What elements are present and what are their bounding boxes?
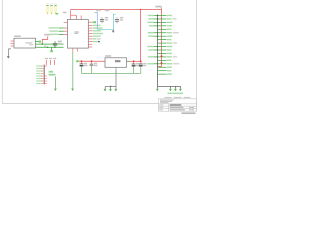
ground bus below regulator: [82, 72, 141, 74]
connector pin row 17: [158, 70, 172, 71]
ground symbol ISP: [54, 89, 57, 92]
IC1 name label: [63, 12, 67, 14]
ISP header body line: [43, 65, 45, 85]
ISP ground wire: [55, 77, 57, 89]
junction dots on serial wires: [54, 43, 56, 45]
connector pin row 6: [148, 32, 179, 33]
+5V drop to regulator output: [140, 10, 142, 62]
title block header text row: [165, 97, 172, 98]
X1 left pin 1: [11, 40, 14, 42]
IC1 bottom pin GND: [72, 48, 74, 52]
ground symbol conn4: [179, 89, 182, 92]
ground symbol crystal: [112, 29, 114, 30]
capacitor C5: [100, 17, 109, 24]
crystal net label 2: [105, 10, 110, 12]
title block row3 text: [159, 107, 163, 108]
VIN wire to regulator: [79, 60, 105, 62]
+5V drop to IC: [71, 10, 77, 20]
IC1 left pin with label row2: [50, 30, 68, 31]
IC1 internal text: [74, 32, 78, 33]
title block top cell text: [160, 100, 174, 101]
connector pin row 16: [158, 67, 172, 68]
capacitor C6: [115, 17, 124, 24]
ground symbol conn2: [169, 89, 172, 92]
gnd labels: [168, 93, 173, 95]
connector pin row 4: [149, 25, 172, 26]
red elbow at connector row: [158, 66, 162, 68]
sheet frame bottom border: [2, 103, 158, 105]
junction dot on rail: [140, 9, 142, 11]
X1 ground wire: [9, 49, 12, 56]
+5V drop through connector: [161, 10, 163, 67]
capacitor C7: [53, 41, 62, 48]
crystal net label 1: [96, 10, 101, 12]
small text smudge: [44, 45, 47, 46]
connector pin row 8: [158, 39, 172, 40]
ground symbol 1: [104, 89, 107, 92]
wire X1 TX to IC: [36, 43, 64, 45]
connector pin row 18: [158, 73, 172, 74]
resistor R1: [46, 4, 49, 15]
connector pin row 10: [147, 46, 172, 47]
ground symbol conn1: [156, 89, 159, 92]
connector pin row 9: [158, 42, 178, 43]
connector pin row 15: [147, 63, 179, 64]
junction dots on VIN: [81, 60, 83, 62]
IC1 microcontroller body: [68, 20, 89, 49]
ISP header top pin stubs: [45, 58, 57, 65]
capacitor C3 (output): [132, 61, 140, 73]
connector pin row 1: [148, 15, 172, 16]
reset net red elbow: [42, 36, 47, 44]
connector pin row 12: [158, 53, 172, 54]
IC2 output wire: [127, 60, 130, 62]
serial interface X1 body: [14, 38, 36, 48]
voltage regulator IC2 body: [105, 58, 127, 68]
IC2 name label: [105, 55, 111, 57]
ground rail right: [158, 86, 181, 88]
ISP right side flags: [49, 71, 54, 73]
connector pin row 7: [148, 35, 172, 36]
resistor R2: [50, 4, 53, 15]
X1 right pin stub with flag: [36, 41, 39, 43]
connector pin row 11: [148, 49, 171, 50]
reset label: [44, 34, 49, 36]
junction dots on output: [133, 60, 135, 62]
X1 name label: [14, 35, 21, 37]
+5V rail wire: [71, 9, 162, 11]
X1 internal text: [26, 42, 33, 43]
+5V rail end tick: [161, 7, 163, 9]
X1 left pin 3: [11, 45, 14, 47]
ground symbol 2: [109, 89, 112, 92]
connector SV1 body line: [157, 14, 159, 86]
IC1 bottom pin 2: [76, 48, 78, 52]
VIN net flag: [76, 60, 78, 62]
IC1 left pin bare: [64, 22, 68, 24]
stub down to flag: [51, 47, 53, 50]
connector pin row 5: [158, 29, 172, 30]
GND wire from IC to ground: [72, 52, 74, 89]
connector pin row 2: [148, 18, 176, 19]
resistor R3: [54, 4, 57, 15]
IC1 left pin with label row1: [49, 27, 68, 28]
ground symbol X1: [7, 56, 10, 58]
X1 left pin 2: [11, 43, 14, 45]
IC1 left pin with label row3: [50, 34, 68, 35]
net flag below R3: [56, 13, 58, 15]
sheet frame left border: [1, 0, 3, 104]
junction dot: [42, 43, 44, 45]
title block frame: [158, 99, 196, 111]
title block row2 text (dark title): [159, 105, 163, 106]
crystal net teal wire: [97, 14, 116, 29]
ground symbol below IC: [71, 89, 74, 92]
IC2 ground pin: [115, 67, 117, 70]
connector pin row 14: [158, 60, 172, 61]
crystal net blue wire: [95, 12, 98, 29]
ISP rows: [36, 65, 47, 84]
IC2 internal symbol: [115, 60, 121, 62]
+5V label at rail end: [155, 6, 161, 8]
IC1 right pin flag row: [88, 21, 96, 23]
ground symbol 3: [114, 89, 117, 92]
sheet frame right border: [196, 0, 198, 111]
title block row4 text: [159, 109, 163, 110]
connector pin row 3: [147, 22, 172, 23]
IC1 right pins with labels: [88, 25, 103, 47]
capacitor C1 (input electrolytic): [80, 61, 88, 73]
connector pin row 13: [148, 56, 177, 57]
capacitor C2 (input ceramic): [90, 61, 98, 73]
wire X1 RX to IC: [36, 46, 64, 48]
watermark text bottom right: [182, 112, 196, 114]
ground bar with three drops: [105, 86, 116, 89]
capacitor C4 (output): [139, 61, 147, 73]
ground symbol conn3: [174, 89, 177, 92]
